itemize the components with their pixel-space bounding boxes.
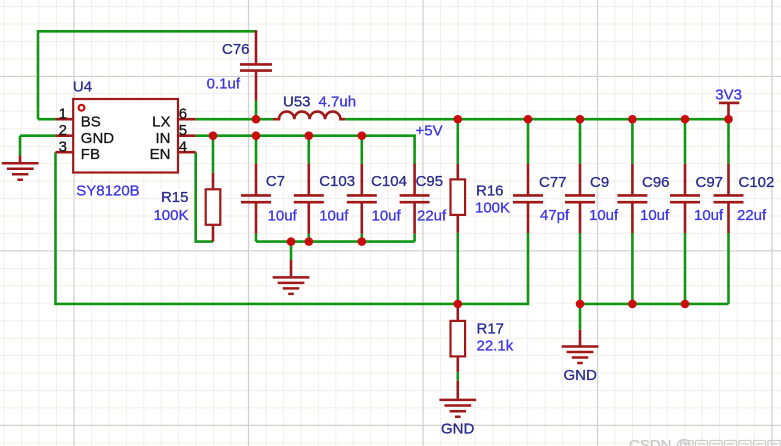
- svg-text:U4: U4: [73, 78, 92, 95]
- svg-text:22.1k: 22.1k: [477, 337, 514, 354]
- svg-text:GND: GND: [81, 130, 115, 147]
- svg-text:IN: IN: [156, 130, 171, 147]
- svg-text:R16: R16: [476, 183, 504, 200]
- svg-text:100K: 100K: [153, 207, 188, 224]
- svg-text:C96: C96: [642, 174, 670, 191]
- svg-text:R15: R15: [161, 189, 189, 206]
- svg-text:U53: U53: [283, 94, 311, 111]
- svg-text:10uf: 10uf: [319, 208, 349, 225]
- svg-text:10uf: 10uf: [589, 207, 619, 224]
- svg-text:10uf: 10uf: [694, 207, 724, 224]
- svg-text:10uf: 10uf: [372, 208, 402, 225]
- svg-text:3V3: 3V3: [715, 87, 742, 104]
- svg-text:C76: C76: [222, 41, 250, 58]
- svg-text:4.7uh: 4.7uh: [319, 94, 357, 111]
- svg-text:FB: FB: [81, 146, 100, 163]
- svg-text:C9: C9: [590, 174, 609, 191]
- svg-text:LX: LX: [152, 113, 170, 130]
- svg-text:BS: BS: [81, 113, 101, 130]
- svg-text:22uf: 22uf: [737, 207, 767, 224]
- svg-text:3: 3: [59, 138, 67, 155]
- svg-text:C103: C103: [319, 173, 355, 190]
- svg-text:SY8120B: SY8120B: [76, 182, 139, 199]
- svg-text:100K: 100K: [475, 200, 510, 217]
- svg-text:4: 4: [179, 138, 187, 155]
- svg-text:+5V: +5V: [416, 122, 443, 139]
- svg-text:C104: C104: [371, 173, 407, 190]
- svg-text:10uf: 10uf: [268, 208, 298, 225]
- svg-text:6: 6: [179, 105, 187, 122]
- svg-text:47pf: 47pf: [540, 207, 570, 224]
- svg-text:EN: EN: [150, 146, 171, 163]
- svg-text:5: 5: [179, 122, 187, 139]
- svg-text:C7: C7: [266, 173, 285, 190]
- svg-text:10uf: 10uf: [640, 207, 670, 224]
- svg-text:R17: R17: [477, 321, 505, 338]
- svg-text:1: 1: [59, 105, 67, 122]
- svg-text:0.1uf: 0.1uf: [207, 76, 241, 93]
- svg-text:GND: GND: [564, 367, 598, 384]
- svg-text:22uf: 22uf: [417, 208, 447, 225]
- svg-text:C77: C77: [539, 174, 567, 191]
- svg-text:2: 2: [59, 122, 67, 139]
- svg-text:GND: GND: [441, 420, 475, 437]
- svg-text:C95: C95: [416, 173, 444, 190]
- svg-text:C97: C97: [696, 174, 724, 191]
- svg-text:C102: C102: [739, 174, 775, 191]
